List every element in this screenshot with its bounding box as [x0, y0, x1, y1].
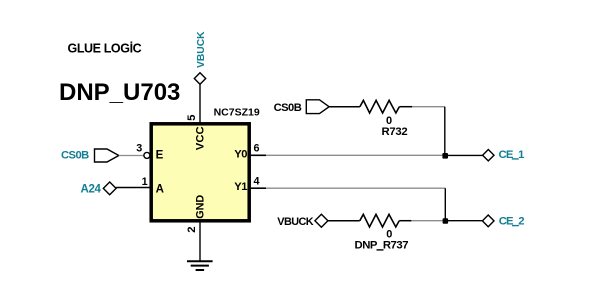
svg-text:1: 1 — [142, 176, 148, 188]
svg-text:4: 4 — [254, 176, 260, 188]
svg-text:CS0B: CS0B — [274, 102, 302, 114]
svg-text:2: 2 — [186, 227, 198, 233]
svg-text:5: 5 — [186, 115, 198, 121]
svg-text:Y1: Y1 — [234, 181, 247, 193]
svg-text:CS0B: CS0B — [61, 150, 89, 162]
svg-text:A: A — [156, 183, 164, 195]
svg-text:6: 6 — [254, 143, 260, 155]
svg-text:CE_1: CE_1 — [499, 149, 525, 161]
svg-text:E: E — [156, 150, 164, 162]
svg-text:GND: GND — [195, 195, 207, 219]
svg-text:CE_2: CE_2 — [499, 216, 525, 228]
svg-text:GLUE LOGİC: GLUE LOGİC — [68, 41, 142, 56]
svg-text:VBUCK: VBUCK — [196, 31, 207, 68]
svg-text:R732: R732 — [382, 126, 408, 138]
svg-text:3: 3 — [136, 143, 142, 155]
svg-text:DNP_U703: DNP_U703 — [59, 79, 180, 106]
svg-text:VBUCK: VBUCK — [277, 216, 313, 228]
svg-text:Y0: Y0 — [234, 148, 247, 160]
svg-text:NC7SZ19: NC7SZ19 — [214, 107, 260, 119]
svg-text:VCC: VCC — [195, 126, 207, 150]
svg-text:A24: A24 — [81, 183, 102, 195]
